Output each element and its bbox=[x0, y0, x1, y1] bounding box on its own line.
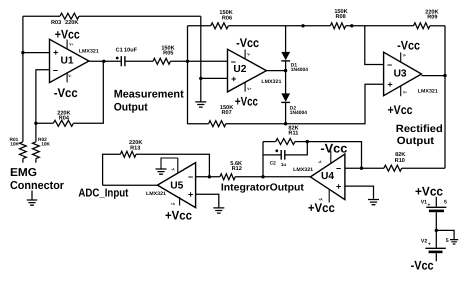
svg-text:−: − bbox=[188, 172, 193, 182]
svg-text:C1: C1 bbox=[116, 48, 123, 54]
pin V- U1 bbox=[67, 73, 71, 82]
svg-text:R07: R07 bbox=[221, 110, 231, 116]
wire rectified output vertical bbox=[444, 26, 446, 168]
ground battery bbox=[450, 240, 458, 244]
wire U1 minus input bbox=[36, 70, 50, 142]
svg-text:Measurement: Measurement bbox=[114, 88, 184, 100]
svg-text:Output: Output bbox=[114, 102, 148, 114]
svg-text:IntegratorOutput: IntegratorOutput bbox=[221, 183, 305, 194]
wire ground tap vertical bbox=[200, 16, 202, 102]
svg-text:10K: 10K bbox=[10, 141, 19, 147]
svg-text:−: − bbox=[231, 57, 236, 67]
label -Vcc battery bbox=[411, 259, 434, 273]
label ADC_Input bbox=[78, 188, 128, 200]
svg-text:+Vcc: +Vcc bbox=[308, 201, 335, 215]
svg-text:R11: R11 bbox=[288, 130, 298, 136]
svg-text:220K: 220K bbox=[65, 20, 78, 26]
svg-text:LMX321: LMX321 bbox=[261, 79, 281, 85]
svg-text:+: + bbox=[188, 189, 193, 199]
svg-text:V+: V+ bbox=[247, 87, 251, 91]
op-amp U1 bbox=[50, 39, 89, 82]
wire battery ground tap bbox=[436, 230, 454, 239]
svg-text:EMG: EMG bbox=[10, 167, 37, 179]
ground EMG bbox=[27, 191, 37, 206]
wire U4 minus rail bbox=[345, 167, 445, 169]
resistor R08 bbox=[330, 9, 347, 29]
svg-text:+Vcc: +Vcc bbox=[165, 209, 192, 223]
label Measurement Output bbox=[114, 88, 184, 113]
svg-text:U4: U4 bbox=[321, 171, 334, 182]
label +Vcc U1 bbox=[55, 27, 80, 41]
svg-text:V-: V- bbox=[68, 74, 71, 78]
wire feedback vertical U4 bbox=[307, 142, 361, 169]
label EMG Connector bbox=[10, 167, 64, 192]
resistor R12 bbox=[220, 161, 242, 180]
node R11 C2 right junction bbox=[306, 140, 309, 143]
node U1 output junction bbox=[102, 60, 105, 63]
wire R11 left vertical bbox=[262, 142, 264, 177]
svg-text:LMX321: LMX321 bbox=[418, 89, 438, 95]
svg-text:V2: V2 bbox=[421, 239, 427, 245]
wire U5 ground pin path bbox=[161, 158, 178, 169]
label -Vcc U2 bbox=[236, 36, 259, 50]
capacitor C2 bbox=[263, 142, 307, 167]
svg-text:-Vcc: -Vcc bbox=[397, 38, 420, 52]
diode D1 bbox=[281, 52, 308, 73]
op-amp U2 bbox=[228, 49, 267, 92]
pin V+ U1 bbox=[67, 40, 73, 50]
node rail dot A bbox=[301, 24, 304, 27]
svg-text:-Vcc: -Vcc bbox=[320, 142, 347, 156]
wire C1 to U2 minus bbox=[125, 60, 228, 62]
svg-text:R09: R09 bbox=[427, 14, 437, 20]
svg-text:+: + bbox=[427, 202, 430, 208]
svg-text:+: + bbox=[336, 181, 341, 191]
svg-text:1N4004: 1N4004 bbox=[290, 110, 307, 116]
wire U3 minus input bbox=[365, 26, 384, 65]
svg-text:LMX321: LMX321 bbox=[293, 167, 313, 173]
op-amp U4 bbox=[310, 154, 345, 200]
resistor R11 bbox=[263, 126, 307, 145]
wire D1 anode lead bbox=[285, 26, 287, 52]
ground near U5 top pin bbox=[156, 169, 167, 174]
node R04 junction bbox=[34, 122, 37, 125]
svg-text:1N4004: 1N4004 bbox=[291, 67, 308, 73]
pin V+ U3 bbox=[401, 86, 407, 96]
svg-text:+: + bbox=[387, 80, 392, 90]
wire left vertical to R01 bbox=[22, 16, 24, 142]
label +Vcc battery bbox=[415, 185, 443, 199]
battery V1 bbox=[421, 200, 447, 211]
resistor R04 bbox=[53, 110, 73, 126]
svg-text:−: − bbox=[387, 60, 392, 70]
wire R13 rail bbox=[103, 154, 210, 185]
wire lower rail R07 net bbox=[188, 61, 384, 123]
node U2 output junction bbox=[284, 69, 287, 72]
pin V+ U4 bbox=[318, 189, 329, 202]
label -Vcc U4 bbox=[320, 142, 347, 156]
wire U5 plus input bbox=[196, 194, 219, 207]
svg-text:+Vcc: +Vcc bbox=[388, 103, 413, 117]
op-amp U5 bbox=[157, 163, 195, 208]
svg-text:−: − bbox=[336, 164, 341, 174]
svg-text:1u: 1u bbox=[281, 162, 287, 167]
wire battery bottom lead bbox=[435, 253, 437, 261]
svg-text:V1: V1 bbox=[421, 200, 427, 206]
svg-text:R10: R10 bbox=[395, 158, 405, 164]
node U2 summing junction bbox=[186, 60, 189, 63]
resistor R03 bbox=[51, 13, 79, 26]
svg-text:R03: R03 bbox=[51, 20, 61, 26]
battery V2 bbox=[421, 238, 449, 252]
node battery junction bbox=[435, 229, 438, 232]
label +Vcc U4 bbox=[308, 201, 335, 215]
svg-text:C2: C2 bbox=[270, 160, 276, 166]
wire U1 output bbox=[89, 60, 121, 62]
wire U3 output bbox=[422, 75, 446, 77]
svg-text:ADC_Input: ADC_Input bbox=[78, 188, 128, 200]
resistor R10 bbox=[384, 152, 405, 171]
wire battery middle lead bbox=[435, 212, 437, 248]
svg-text:-Vcc: -Vcc bbox=[411, 259, 434, 273]
resistor R02 bbox=[33, 137, 51, 163]
svg-text:-Vcc: -Vcc bbox=[236, 36, 259, 50]
node rail dot B bbox=[350, 24, 353, 27]
pin V- U5 bbox=[171, 158, 178, 174]
resistor R05 bbox=[153, 45, 175, 64]
svg-text:5: 5 bbox=[446, 238, 449, 244]
label +Vcc U5 bbox=[165, 209, 192, 223]
svg-text:+Vcc: +Vcc bbox=[235, 94, 258, 108]
wire U1 plus input bbox=[23, 52, 50, 54]
pin V- U4 bbox=[318, 151, 331, 165]
svg-text:R12: R12 bbox=[232, 166, 242, 172]
label LMX321 U4 bbox=[293, 167, 313, 173]
svg-text:V+: V+ bbox=[403, 90, 407, 94]
wire U4 plus input bbox=[345, 186, 374, 199]
svg-text:+A: +A bbox=[171, 202, 176, 206]
svg-text:10uF: 10uF bbox=[124, 48, 138, 54]
ground near U4 bbox=[368, 200, 379, 205]
node U4 minus junction bbox=[360, 167, 363, 170]
resistor R09 bbox=[414, 10, 439, 29]
wire top rail R03 net bbox=[23, 15, 201, 17]
svg-text:-Vcc: -Vcc bbox=[54, 86, 78, 100]
pin V- U3 bbox=[401, 52, 406, 62]
svg-text:R13: R13 bbox=[130, 146, 140, 152]
pin V- U2 bbox=[245, 50, 250, 60]
label LMX321 U3 bbox=[418, 89, 438, 95]
wire U2 output bbox=[266, 70, 285, 72]
label LMX321 U2 bbox=[261, 79, 281, 85]
resistor R13 bbox=[120, 140, 142, 157]
svg-text:R06: R06 bbox=[222, 16, 232, 22]
ground near U2 bbox=[195, 102, 206, 107]
label IntegratorOutput bbox=[221, 183, 305, 194]
wire U2 plus input bbox=[201, 77, 228, 79]
wire integrator output rail bbox=[196, 176, 311, 178]
svg-text:10K: 10K bbox=[41, 141, 50, 147]
svg-text:+: + bbox=[428, 242, 431, 248]
svg-text:+: + bbox=[231, 74, 236, 84]
label -Vcc U1 bbox=[54, 86, 78, 100]
node U1 plus junction bbox=[21, 51, 24, 54]
node U2 plus junction bbox=[199, 77, 202, 80]
svg-text:+Vcc: +Vcc bbox=[55, 27, 80, 41]
label LMX321 U1 bbox=[79, 48, 99, 54]
svg-text:Output: Output bbox=[397, 135, 435, 147]
node U3 output junction bbox=[443, 74, 446, 77]
label -Vcc U3 bbox=[397, 38, 420, 52]
svg-text:Connector: Connector bbox=[10, 180, 64, 192]
svg-text:R04: R04 bbox=[59, 115, 70, 121]
pin V+ U5 bbox=[171, 197, 180, 206]
pin V+ U2 bbox=[245, 82, 251, 91]
svg-text:-A: -A bbox=[318, 160, 322, 164]
svg-text:V-: V- bbox=[403, 54, 406, 58]
label +Vcc U3 bbox=[388, 103, 413, 117]
label LMX321 U5 bbox=[146, 191, 166, 197]
node R12 R13 junction bbox=[208, 175, 211, 178]
op-amp U3 bbox=[384, 52, 422, 95]
node integrator output junction bbox=[261, 175, 264, 178]
svg-text:Rectified: Rectified bbox=[396, 123, 443, 135]
wire U5 output ADC bbox=[103, 184, 158, 186]
svg-text:-A: -A bbox=[171, 168, 175, 172]
diode D2 bbox=[281, 71, 307, 124]
label +Vcc U2 bbox=[235, 94, 258, 108]
wire R06 tap vertical bbox=[187, 26, 189, 62]
svg-text:5: 5 bbox=[444, 200, 447, 206]
wire battery top lead bbox=[435, 197, 437, 207]
svg-text:+Vcc: +Vcc bbox=[415, 185, 443, 199]
capacitor C1 bbox=[116, 48, 138, 67]
ground near U5 plus bbox=[213, 208, 224, 213]
svg-text:V+: V+ bbox=[69, 42, 73, 46]
wire R04 feedback rail bbox=[36, 61, 103, 123]
node D2 rail junction bbox=[284, 122, 287, 125]
svg-text:+: + bbox=[53, 48, 58, 58]
svg-text:R08: R08 bbox=[335, 14, 345, 20]
svg-text:U3: U3 bbox=[394, 68, 407, 79]
resistor R06 bbox=[211, 10, 233, 29]
svg-text:V-: V- bbox=[247, 53, 250, 57]
svg-text:U5: U5 bbox=[170, 181, 183, 192]
resistor R01 bbox=[9, 137, 26, 163]
svg-text:LMX321: LMX321 bbox=[146, 191, 166, 197]
svg-text:−: − bbox=[53, 66, 58, 76]
label Rectified Output bbox=[396, 123, 443, 147]
svg-text:U1: U1 bbox=[60, 55, 73, 66]
svg-text:R05: R05 bbox=[163, 51, 173, 57]
wire top feedback rail bbox=[188, 25, 446, 27]
resistor R07 bbox=[209, 105, 234, 127]
svg-text:LMX321: LMX321 bbox=[79, 48, 99, 54]
